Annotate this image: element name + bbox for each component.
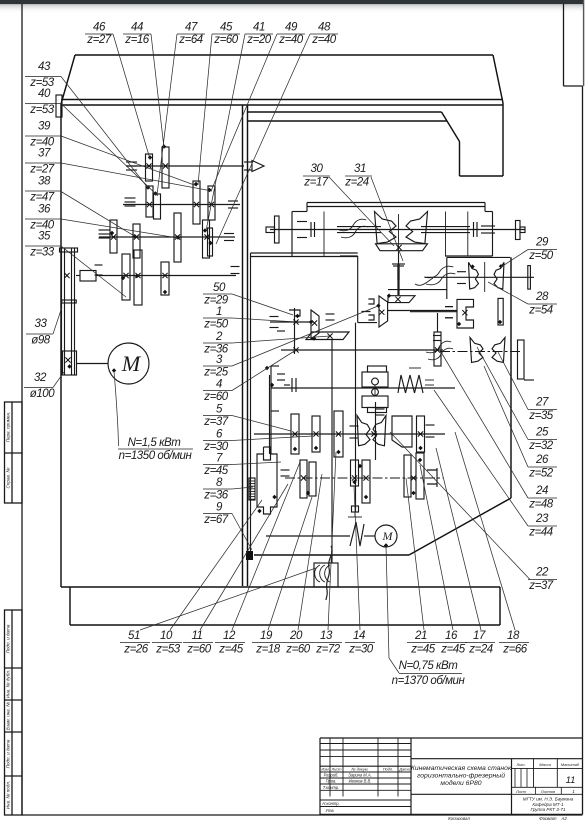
svg-text:z=60: z=60 (285, 644, 311, 656)
svg-text:n=1370 об/мин: n=1370 об/мин (392, 675, 466, 687)
svg-text:Кинематическая схема станок: Кинематическая схема станок (411, 765, 512, 772)
svg-text:Листов: Листов (540, 789, 555, 794)
svg-text:z=27: z=27 (29, 164, 55, 176)
svg-text:модели 6Р80: модели 6Р80 (440, 779, 481, 787)
svg-text:z=40: z=40 (311, 34, 337, 46)
svg-text:Перв. примен.: Перв. примен. (6, 412, 11, 443)
svg-text:8: 8 (216, 477, 223, 489)
svg-text:z=25: z=25 (203, 367, 229, 379)
svg-text:z=53: z=53 (29, 104, 55, 116)
svg-text:14: 14 (353, 630, 365, 642)
svg-text:Иванов В.В.: Иванов В.В. (349, 779, 372, 784)
svg-text:N=0,75 кВт: N=0,75 кВт (399, 660, 459, 672)
svg-text:Разраб.: Разраб. (324, 773, 339, 778)
svg-text:Дата: Дата (398, 767, 410, 772)
svg-text:М: М (382, 529, 394, 543)
svg-text:17: 17 (473, 630, 486, 642)
svg-text:36: 36 (38, 204, 51, 216)
svg-text:23: 23 (535, 513, 549, 525)
svg-text:3: 3 (216, 354, 223, 366)
svg-text:z=52: z=52 (528, 468, 554, 480)
svg-text:9: 9 (216, 502, 223, 514)
svg-text:4: 4 (216, 379, 222, 391)
svg-text:z=47: z=47 (29, 192, 55, 204)
svg-text:z=45: z=45 (410, 644, 436, 656)
svg-text:27: 27 (535, 397, 549, 409)
svg-text:Копировал: Копировал (448, 816, 470, 820)
svg-text:39: 39 (38, 121, 51, 133)
svg-text:25: 25 (535, 427, 549, 439)
svg-text:32: 32 (34, 372, 47, 384)
svg-text:z=44: z=44 (528, 527, 553, 539)
svg-text:41: 41 (253, 22, 265, 34)
svg-text:31: 31 (354, 163, 366, 175)
svg-text:z=27: z=27 (86, 34, 112, 46)
svg-text:5: 5 (216, 404, 223, 416)
svg-text:12: 12 (223, 630, 236, 642)
svg-text:z=60: z=60 (203, 391, 229, 403)
svg-text:z=36: z=36 (203, 490, 229, 502)
svg-text:z=35: z=35 (528, 410, 554, 422)
svg-text:ø98: ø98 (31, 335, 51, 347)
svg-text:51: 51 (128, 630, 140, 642)
svg-text:35: 35 (38, 231, 51, 243)
svg-text:Подп.: Подп. (383, 767, 393, 772)
svg-text:N=1,5 кВт: N=1,5 кВт (128, 437, 182, 449)
svg-text:z=60: z=60 (213, 34, 239, 46)
svg-text:Утв.: Утв. (325, 808, 334, 813)
svg-text:z=24: z=24 (468, 644, 493, 656)
svg-text:z=17: z=17 (303, 177, 329, 189)
svg-text:Лист: Лист (515, 789, 527, 794)
svg-text:37: 37 (38, 148, 51, 160)
svg-text:29: 29 (535, 237, 549, 249)
svg-text:z=72: z=72 (315, 644, 341, 656)
svg-text:Инв. № дубл.: Инв. № дубл. (6, 670, 11, 698)
svg-text:горизонтально-фрезерный: горизонтально-фрезерный (417, 772, 505, 780)
svg-text:1: 1 (216, 306, 222, 318)
svg-text:38: 38 (38, 176, 51, 188)
svg-text:z=53: z=53 (155, 644, 181, 656)
svg-text:z=37: z=37 (203, 416, 229, 428)
svg-text:Подп. и дата: Подп. и дата (6, 624, 11, 653)
svg-text:49: 49 (285, 22, 298, 34)
svg-text:z=40: z=40 (278, 34, 304, 46)
svg-text:Масса: Масса (539, 762, 551, 767)
svg-text:11: 11 (191, 630, 202, 642)
svg-text:z=45: z=45 (218, 644, 244, 656)
svg-text:24: 24 (535, 485, 548, 497)
svg-text:45: 45 (220, 22, 233, 34)
svg-text:33: 33 (35, 318, 48, 330)
svg-text:z=60: z=60 (186, 644, 212, 656)
svg-text:z=18: z=18 (255, 644, 281, 656)
svg-text:20: 20 (289, 630, 303, 642)
svg-text:16: 16 (445, 630, 458, 642)
svg-text:z=24: z=24 (344, 177, 369, 189)
svg-text:z=66: z=66 (502, 644, 528, 656)
svg-text:№ докум.: № докум. (351, 767, 368, 772)
svg-text:z=45: z=45 (203, 465, 229, 477)
svg-text:z=30: z=30 (348, 644, 374, 656)
svg-text:ø100: ø100 (30, 388, 55, 400)
svg-text:z=54: z=54 (528, 305, 553, 317)
svg-text:z=67: z=67 (203, 514, 229, 526)
svg-text:43: 43 (38, 61, 51, 73)
svg-text:47: 47 (185, 22, 198, 34)
svg-text:Изм: Изм (321, 767, 329, 772)
svg-text:z=16: z=16 (124, 34, 150, 46)
svg-text:Группа РКТ 3-71: Группа РКТ 3-71 (531, 807, 566, 812)
svg-text:z=48: z=48 (528, 499, 554, 511)
svg-text:Подп. и дата: Подп. и дата (6, 739, 11, 768)
svg-text:Лит.: Лит. (515, 762, 525, 767)
svg-text:z=20: z=20 (246, 34, 272, 46)
svg-text:1: 1 (572, 789, 574, 794)
svg-text:26: 26 (535, 454, 549, 466)
svg-text:18: 18 (507, 630, 520, 642)
svg-text:46: 46 (93, 22, 106, 34)
svg-text:28: 28 (535, 291, 549, 303)
svg-text:z=30: z=30 (203, 441, 229, 453)
svg-text:44: 44 (131, 22, 143, 34)
svg-text:Лист: Лист (330, 767, 342, 772)
svg-text:50: 50 (213, 282, 226, 294)
svg-text:13: 13 (320, 630, 333, 642)
svg-text:21: 21 (414, 630, 427, 642)
svg-text:z=64: z=64 (178, 34, 203, 46)
svg-text:6: 6 (216, 429, 223, 441)
svg-text:z=33: z=33 (29, 247, 55, 259)
svg-text:z=26: z=26 (123, 644, 149, 656)
svg-text:11: 11 (566, 775, 576, 786)
svg-text:z=29: z=29 (203, 295, 229, 307)
svg-text:n=1350 об/мин: n=1350 об/мин (119, 450, 193, 462)
svg-text:z=50: z=50 (203, 319, 229, 331)
svg-text:Формат А2: Формат А2 (539, 816, 567, 820)
svg-text:z=45: z=45 (440, 644, 466, 656)
svg-text:z=50: z=50 (528, 250, 554, 262)
svg-text:19: 19 (260, 630, 273, 642)
svg-text:Инв. № подл.: Инв. № подл. (6, 781, 11, 810)
svg-text:10: 10 (160, 630, 173, 642)
svg-text:7: 7 (216, 453, 223, 465)
svg-text:22: 22 (535, 567, 549, 579)
svg-text:М: М (121, 351, 142, 376)
svg-text:48: 48 (318, 22, 331, 34)
svg-text:Взам. инв. №: Взам. инв. № (6, 702, 11, 730)
svg-text:40: 40 (38, 88, 51, 100)
svg-text:2: 2 (215, 331, 223, 343)
svg-text:Зарина М.А.: Зарина М.А. (348, 773, 371, 778)
svg-text:30: 30 (311, 163, 324, 175)
svg-text:Масштаб: Масштаб (561, 762, 580, 767)
svg-text:z=32: z=32 (528, 440, 554, 452)
svg-text:Т.контр.: Т.контр. (323, 785, 340, 790)
svg-text:Пров.: Пров. (326, 779, 337, 784)
svg-text:z=37: z=37 (528, 580, 554, 592)
svg-text:Н.контр.: Н.контр. (322, 801, 339, 806)
svg-text:Справ. №: Справ. № (6, 468, 11, 489)
